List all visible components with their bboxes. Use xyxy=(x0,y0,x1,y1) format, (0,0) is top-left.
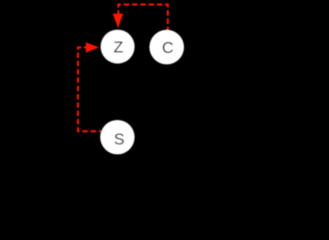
svg-text:Z: Z xyxy=(114,40,124,57)
arrowhead into Z left xyxy=(86,42,99,52)
node S xyxy=(100,120,134,154)
node C xyxy=(149,30,184,65)
wire: edge S to Z (dashed, around the left) xyxy=(78,47,101,131)
svg-text:C: C xyxy=(162,40,174,57)
arrowhead into Z top xyxy=(113,14,123,28)
svg-text:S: S xyxy=(114,132,125,149)
wire: edge C to Z (dashed, over the top) xyxy=(118,5,167,30)
node Z xyxy=(101,30,135,64)
